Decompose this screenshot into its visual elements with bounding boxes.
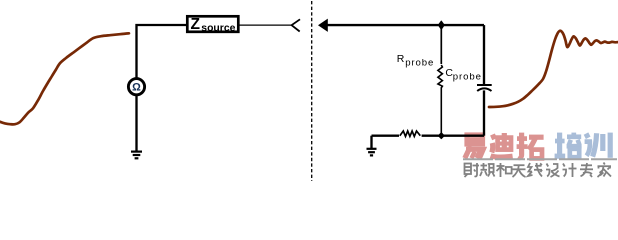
svg-text:Z: Z [191, 16, 201, 33]
svg-text:source: source [201, 23, 235, 34]
svg-text:Ω: Ω [132, 82, 141, 94]
svg-text:R: R [397, 53, 405, 65]
svg-text:probe: probe [405, 58, 434, 69]
svg-text:probe: probe [453, 71, 482, 82]
